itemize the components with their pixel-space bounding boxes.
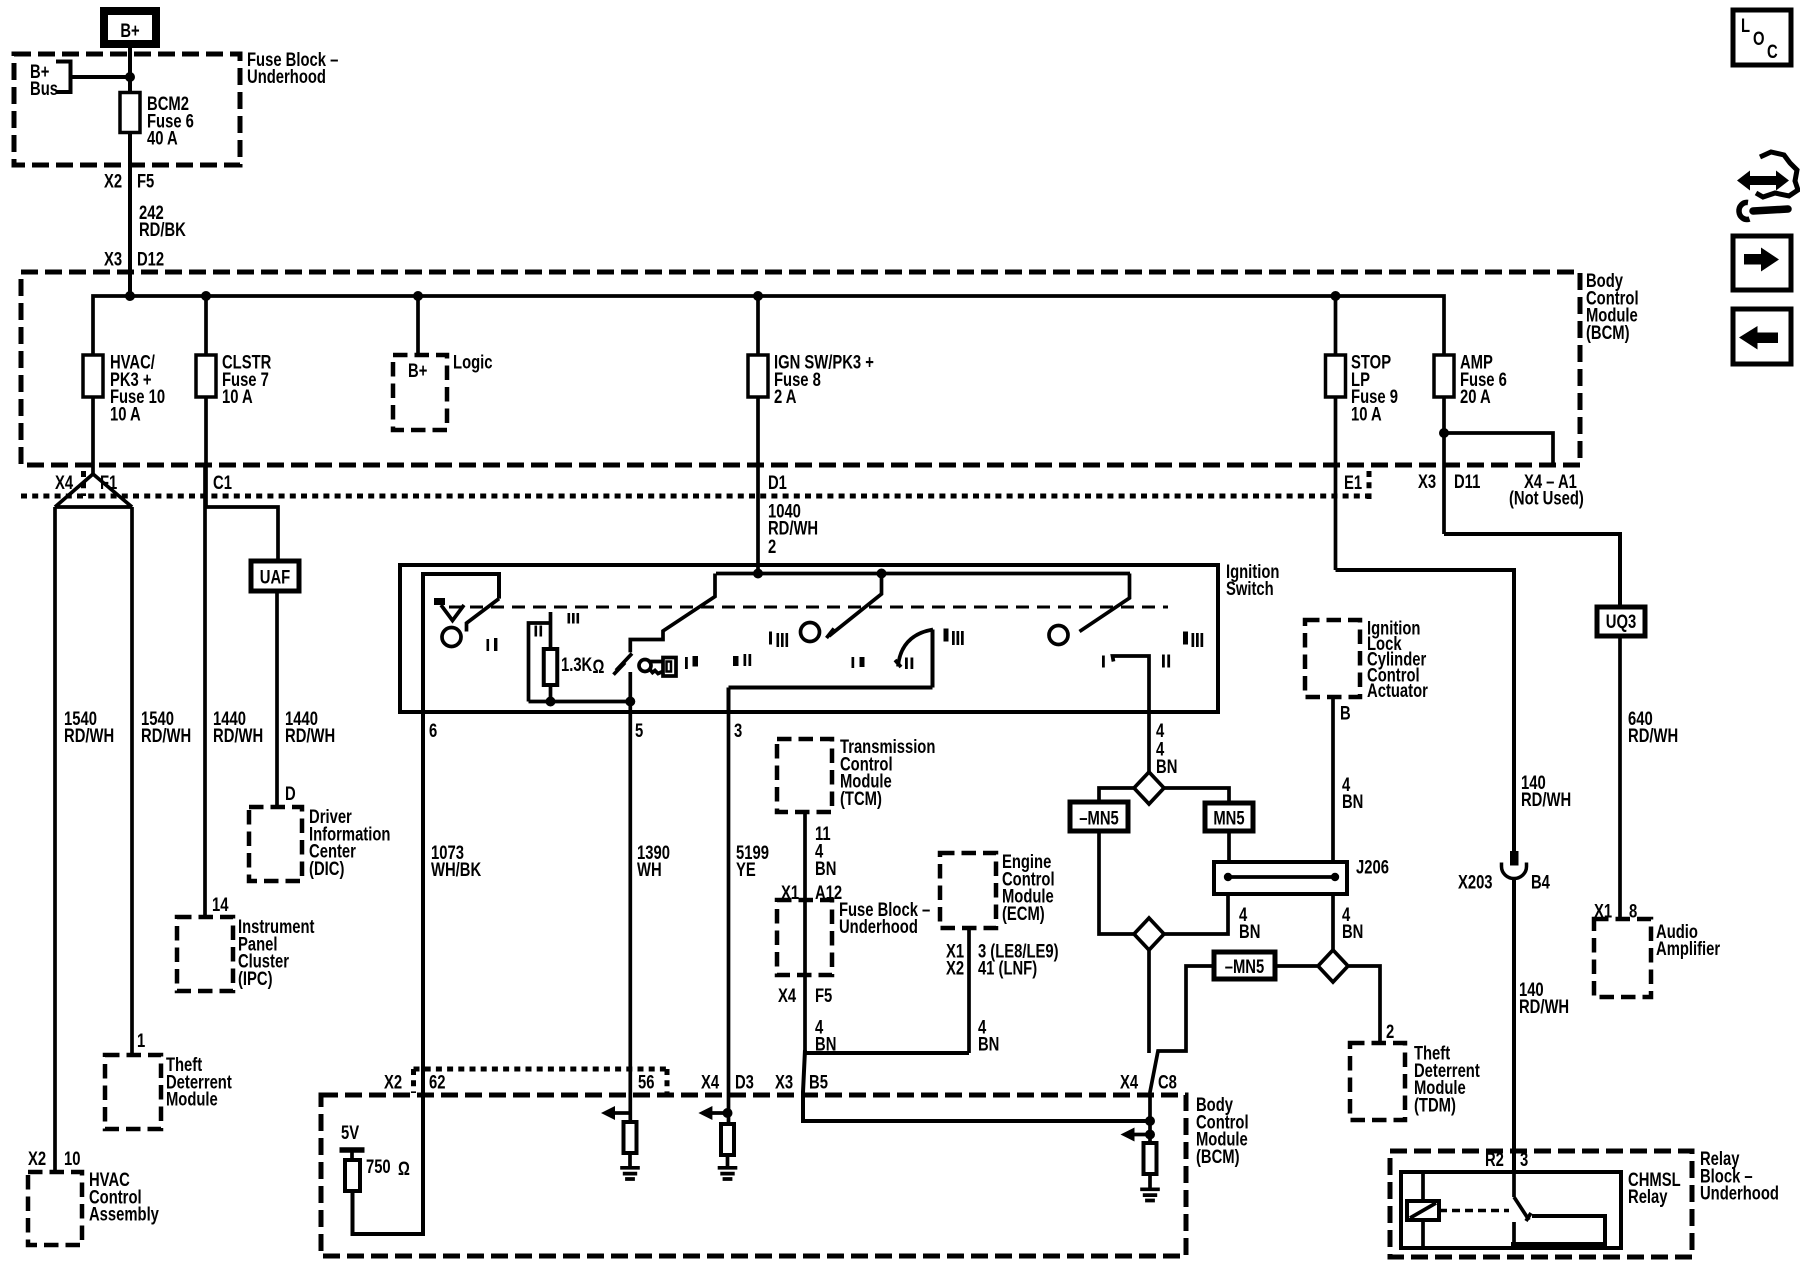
svg-text:Underhood: Underhood — [839, 916, 918, 937]
fuse AMP Fuse 6 20A — [1442, 397, 1446, 534]
svg-text:J206: J206 — [1356, 857, 1389, 878]
svg-text:O: O — [1753, 28, 1765, 49]
wire pin5 to ground — [628, 1153, 632, 1169]
ground pin3 — [718, 1168, 738, 1179]
wire ECM pin — [967, 928, 971, 1053]
wire pin3 to ground — [726, 1153, 730, 1169]
wire S203 to TDM — [1349, 966, 1380, 1043]
HVAC control assembly box — [28, 1172, 82, 1245]
svg-text:RD/WH: RD/WH — [141, 725, 191, 746]
key switch blade strokes — [614, 654, 633, 675]
wire resistor bottom rail — [529, 685, 631, 702]
svg-text:2: 2 — [768, 536, 776, 557]
wire B4 to relay — [1512, 879, 1516, 1173]
svg-text:BN: BN — [1156, 756, 1177, 777]
svg-text:X4: X4 — [55, 472, 74, 493]
pin4 hook contact — [1113, 656, 1150, 712]
fuse block underhood box (top) — [14, 54, 240, 165]
position ticks III — [568, 613, 571, 624]
switch contact circle ACC — [442, 628, 461, 647]
switch blade START — [1080, 574, 1130, 632]
wire splice to -MN5 left — [1099, 788, 1134, 934]
wire pin3 to BCM — [727, 712, 731, 1124]
svg-text:B: B — [1340, 703, 1351, 724]
svg-text:L: L — [1741, 15, 1750, 36]
switch blade RUN — [827, 574, 882, 639]
svg-text:F5: F5 — [815, 985, 832, 1006]
svg-text:–MN5: –MN5 — [1079, 808, 1118, 829]
svg-text:WH/BK: WH/BK — [431, 859, 482, 880]
wire actuator B to J206 — [1331, 697, 1335, 950]
wire UAF to DIC — [275, 591, 279, 807]
wire S202 down — [1149, 894, 1228, 1053]
connector -MN5 left — [1070, 802, 1128, 831]
jump icon — [1737, 171, 1789, 191]
position ticks I III RUN — [769, 632, 772, 645]
svg-text:X1: X1 — [781, 882, 799, 903]
position ticks I I RUN — [733, 656, 739, 666]
svg-text:Actuator: Actuator — [1367, 680, 1428, 701]
B+ Bus bracket — [56, 62, 126, 93]
svg-text:X2: X2 — [104, 171, 122, 192]
wire STOP tap — [1334, 296, 1338, 355]
svg-text:10 A: 10 A — [1351, 404, 1382, 425]
svg-text:MN5: MN5 — [1213, 808, 1244, 829]
svg-text:56: 56 — [638, 1072, 654, 1093]
switch contact circle START — [1049, 626, 1068, 645]
wire F1 split — [55, 474, 132, 1172]
wire pin5 to BCM — [628, 712, 632, 1122]
svg-text:RD/WH: RD/WH — [1521, 789, 1571, 810]
driver information center (DIC) box — [249, 807, 302, 881]
wire B5 run — [803, 1050, 1150, 1121]
switch blade ACC — [466, 599, 499, 632]
svg-text:B+: B+ — [408, 360, 427, 381]
svg-text:Bus: Bus — [30, 78, 58, 99]
svg-text:RD/WH: RD/WH — [213, 725, 263, 746]
wire pin6 feed — [423, 574, 499, 1234]
ground pin5 — [620, 1168, 640, 1179]
audio amplifier box — [1594, 919, 1651, 997]
svg-text:Assembly: Assembly — [89, 1204, 159, 1225]
svg-text:X3: X3 — [1418, 471, 1436, 492]
svg-text:A12: A12 — [815, 882, 842, 903]
svg-text:RD/BK: RD/BK — [139, 219, 186, 240]
key switch left leg — [529, 612, 551, 702]
svg-text:D12: D12 — [137, 249, 164, 270]
svg-text:BN: BN — [815, 1034, 836, 1055]
wire D11 to UQ3 — [1444, 534, 1620, 607]
wire UQ3 to audio amplifier — [1618, 636, 1622, 919]
svg-text:Underhood: Underhood — [1700, 1183, 1779, 1204]
svg-text:Ω: Ω — [592, 656, 604, 677]
svg-text:Ω: Ω — [398, 1158, 410, 1179]
svg-text:X1: X1 — [1594, 901, 1612, 922]
wire internal B+ bus — [93, 296, 1444, 355]
fuse STOP LP Fuse 9 10A — [1334, 397, 1338, 570]
svg-text:1.3K: 1.3K — [561, 654, 593, 675]
svg-text:5: 5 — [635, 720, 643, 741]
engine control module (ECM) box — [940, 853, 996, 928]
svg-text:1: 1 — [137, 1030, 145, 1051]
svg-text:10: 10 — [64, 1148, 80, 1169]
svg-text:D3: D3 — [735, 1072, 754, 1093]
body control module (BCM) box — [21, 272, 1580, 465]
arrow C8 — [1121, 1128, 1135, 1142]
svg-text:X3: X3 — [775, 1072, 793, 1093]
node C8 junctions — [1145, 1116, 1155, 1126]
connector X4 stub — [81, 471, 86, 496]
svg-text:3: 3 — [1520, 1149, 1528, 1170]
svg-text:B5: B5 — [809, 1072, 828, 1093]
svg-text:RD/WH: RD/WH — [1628, 725, 1678, 746]
splice S202 lower — [1134, 918, 1164, 950]
svg-text:(BCM): (BCM) — [1586, 322, 1630, 343]
position ticks II — [535, 626, 538, 637]
svg-text:10 A: 10 A — [110, 404, 141, 425]
svg-text:BN: BN — [815, 858, 836, 879]
5V supply tap — [340, 1147, 365, 1153]
wire pin5 contact — [628, 672, 632, 712]
svg-text:E1: E1 — [1344, 472, 1362, 493]
svg-text:BN: BN — [978, 1034, 999, 1055]
svg-text:2: 2 — [1386, 1021, 1394, 1042]
relay contact path — [1511, 1216, 1605, 1244]
LOC reference box — [1733, 10, 1791, 65]
wire pin6 internal — [353, 712, 424, 1234]
svg-text:C: C — [1767, 41, 1778, 62]
wire -MN5 right to C8 — [1150, 966, 1317, 1143]
wire B+ to fuse block — [128, 44, 132, 296]
svg-text:(TDM): (TDM) — [1414, 1095, 1456, 1116]
svg-text:D: D — [285, 783, 296, 804]
splice pack J206 — [1214, 862, 1347, 894]
resistor 750 ohm — [345, 1160, 360, 1191]
svg-text:YE: YE — [736, 859, 756, 880]
relay actuate dashed — [1439, 1209, 1509, 1213]
fuse CLSTR Fuse 7 10A — [204, 397, 208, 507]
svg-text:RD/WH: RD/WH — [285, 725, 335, 746]
svg-text:F5: F5 — [137, 171, 154, 192]
node B+ bus junction — [125, 72, 135, 82]
relay coil — [1421, 1172, 1425, 1248]
fuse HVAC/PK3+ Fuse 10 10A — [91, 397, 95, 474]
position ticks I + — [685, 657, 688, 669]
contact arc pin3 — [895, 630, 933, 668]
svg-text:2 A: 2 A — [774, 386, 796, 407]
svg-text:BN: BN — [1342, 921, 1363, 942]
svg-text:Relay: Relay — [1628, 1186, 1668, 1207]
svg-text:B4: B4 — [1531, 872, 1550, 893]
switch contact circle RUN — [801, 623, 820, 642]
svg-text:B+: B+ — [120, 20, 139, 41]
svg-text:(TCM): (TCM) — [840, 788, 882, 809]
wire splice to MN5 — [1164, 788, 1229, 862]
svg-text:X2: X2 — [384, 1072, 402, 1093]
svg-text:5V: 5V — [341, 1122, 360, 1143]
wire CLSTR tap — [204, 296, 208, 355]
svg-text:Logic: Logic — [453, 352, 492, 373]
node pin2 feed — [753, 569, 763, 579]
svg-text:40 A: 40 A — [147, 128, 178, 149]
svg-text:41 (LNF): 41 (LNF) — [978, 958, 1037, 979]
position tick I START — [1102, 656, 1105, 668]
arrow pin3 — [698, 1106, 712, 1120]
wire ignition feed top rail — [716, 572, 1130, 576]
svg-text:20 A: 20 A — [1460, 386, 1491, 407]
svg-text:BN: BN — [1342, 791, 1363, 812]
svg-text:UAF: UAF — [260, 567, 290, 588]
svg-text:Amplifier: Amplifier — [1656, 938, 1720, 959]
position ticks I III far right — [1183, 632, 1188, 645]
wire X4-A1 not used stub — [1444, 433, 1553, 465]
svg-text:X4: X4 — [701, 1072, 720, 1093]
svg-text:X2: X2 — [28, 1148, 46, 1169]
svg-text:X203: X203 — [1458, 872, 1493, 893]
svg-text:RD/WH: RD/WH — [1519, 996, 1569, 1017]
svg-text:X4: X4 — [1120, 1072, 1139, 1093]
connector E1 stub — [1367, 471, 1372, 499]
wire pin3 inside — [729, 630, 933, 713]
svg-text:Switch: Switch — [1226, 578, 1274, 599]
instrument panel cluster (IPC) box — [177, 917, 233, 991]
BCM connector dotted line — [414, 1069, 668, 1093]
key switch wiper — [630, 574, 715, 653]
spring return mark — [434, 598, 445, 605]
node bus taps — [125, 291, 135, 301]
position ticks I I — [487, 639, 490, 651]
svg-text:WH: WH — [637, 859, 662, 880]
ignition switch gate dashed line — [449, 606, 1168, 609]
svg-text:62: 62 — [429, 1072, 445, 1093]
arrow pin5 — [601, 1106, 615, 1120]
wire IGN tap — [756, 296, 760, 355]
theft deterrent module (TDM) box — [1350, 1043, 1405, 1120]
svg-text:(IPC): (IPC) — [238, 968, 273, 989]
svg-text:RD/WH: RD/WH — [64, 725, 114, 746]
svg-text:BN: BN — [1239, 921, 1260, 942]
connector -MN5 right — [1214, 952, 1275, 979]
svg-text:F1: F1 — [100, 472, 117, 493]
wire logic tap — [416, 296, 420, 355]
resistor pin3 — [721, 1124, 734, 1155]
connector MN5 — [1205, 803, 1253, 831]
connector face dotted line — [21, 494, 1371, 499]
svg-text:Underhood: Underhood — [247, 66, 326, 87]
svg-text:X4: X4 — [778, 985, 797, 1006]
inline connector X203 B4 — [1510, 851, 1519, 866]
ignition switch box — [400, 565, 1218, 712]
splice S203 — [1318, 950, 1348, 982]
B+ logic box — [393, 355, 447, 430]
svg-text:(ECM): (ECM) — [1002, 903, 1045, 924]
svg-text:D1: D1 — [768, 472, 787, 493]
wire C1 to IPC — [205, 465, 278, 917]
svg-text:X2: X2 — [946, 958, 964, 979]
wire C8 to ground — [1148, 1174, 1152, 1190]
svg-text:–MN5: –MN5 — [1225, 956, 1264, 977]
battery B+ terminal — [104, 11, 156, 44]
CHMSL relay box — [1401, 1172, 1621, 1248]
svg-text:6: 6 — [429, 720, 437, 741]
svg-text:D11: D11 — [1454, 471, 1480, 492]
ignition lock cylinder control actuator box — [1305, 620, 1360, 697]
back arrow box — [1733, 309, 1791, 364]
wire pin4 to splice — [1147, 712, 1151, 773]
relay block underhood box — [1390, 1151, 1692, 1257]
svg-text:X3: X3 — [104, 249, 122, 270]
resistor 1.3k — [544, 649, 558, 685]
svg-text:(DIC): (DIC) — [309, 858, 344, 879]
key icon — [639, 658, 676, 677]
position ticks II START — [1162, 655, 1165, 668]
position ticks II III arc — [905, 658, 908, 670]
svg-text:Module: Module — [166, 1089, 218, 1110]
svg-text:14: 14 — [212, 894, 229, 915]
ground C8 — [1140, 1189, 1160, 1200]
svg-text:8: 8 — [1629, 901, 1637, 922]
forward arrow box — [1733, 236, 1791, 290]
wire E1 140 RD/WH — [1336, 570, 1515, 851]
svg-text:C1: C1 — [213, 472, 232, 493]
transmission control module (TCM) box — [777, 739, 832, 812]
node AMP branch — [1439, 428, 1449, 438]
theft deterrent module box — [105, 1055, 161, 1129]
fuse BCM2 Fuse 6 40A — [120, 93, 140, 133]
svg-text:750: 750 — [366, 1156, 391, 1177]
body control module (BCM) bottom box — [321, 1095, 1186, 1256]
connector UQ3 — [1597, 607, 1645, 636]
svg-text:10 A: 10 A — [222, 386, 253, 407]
svg-text:(Not Used): (Not Used) — [1509, 488, 1584, 509]
relay switch — [1514, 1172, 1531, 1248]
splice S201 upper — [1134, 772, 1164, 804]
wire TCM pin11 — [803, 812, 807, 1053]
resistor pin5 — [624, 1122, 637, 1153]
fuse IGN SW/PK3+ Fuse 8 2A — [756, 397, 760, 575]
svg-text:R2: R2 — [1485, 1149, 1504, 1170]
svg-text:C8: C8 — [1158, 1072, 1177, 1093]
svg-text:(BCM): (BCM) — [1196, 1146, 1240, 1167]
ticks left of arc — [852, 657, 855, 668]
fuse block underhood box 2 — [777, 900, 832, 975]
connector UAF — [251, 561, 299, 591]
resistor C8 — [1144, 1143, 1157, 1174]
svg-text:UQ3: UQ3 — [1606, 611, 1636, 632]
svg-text:3: 3 — [734, 720, 742, 741]
node resistor rail — [546, 697, 556, 707]
